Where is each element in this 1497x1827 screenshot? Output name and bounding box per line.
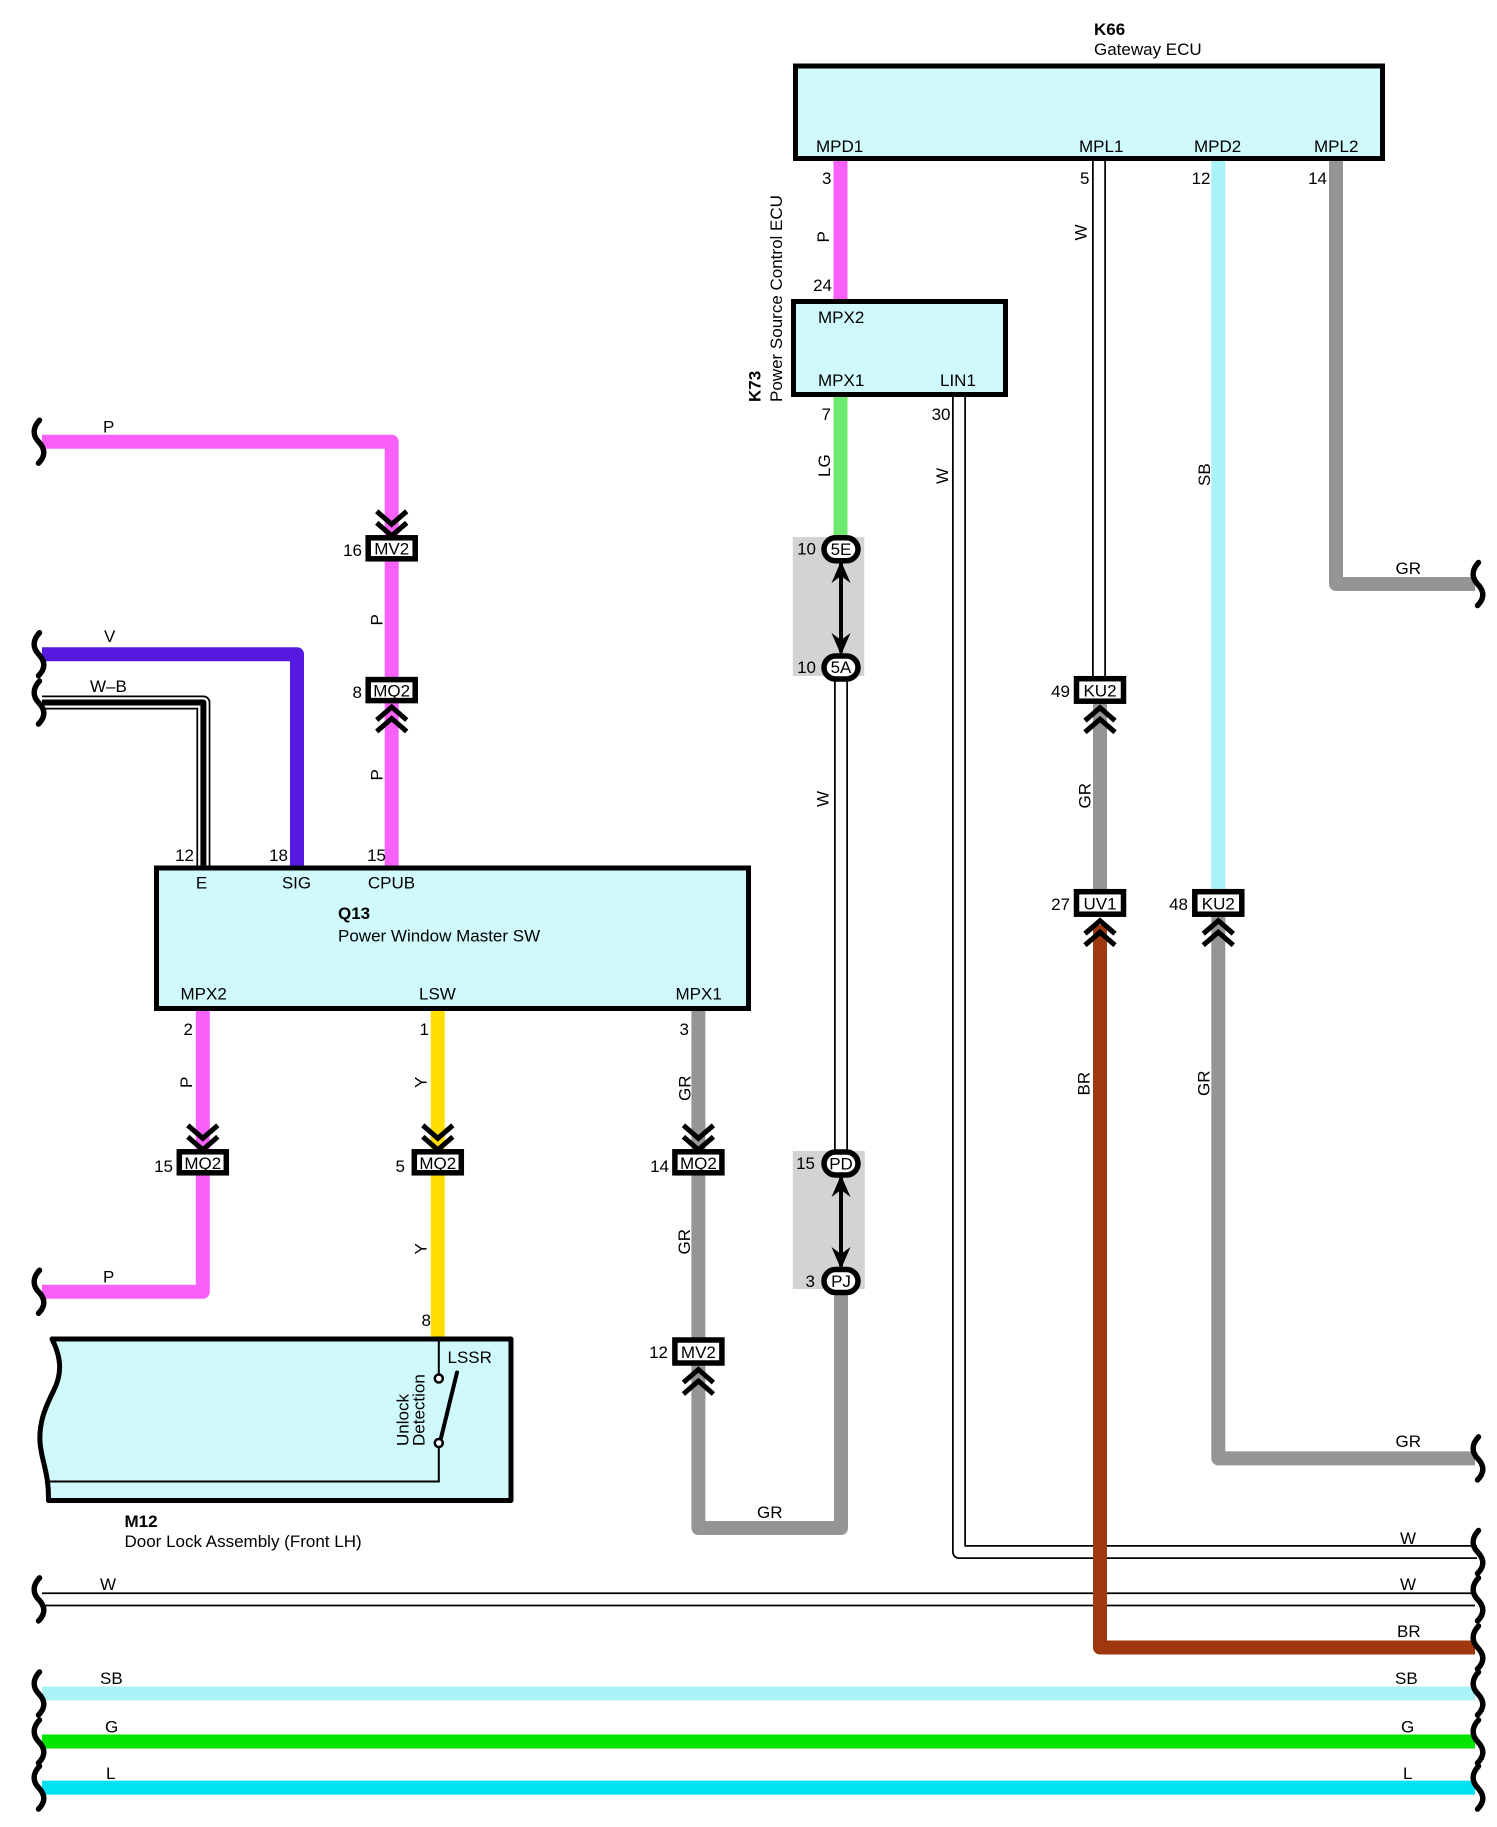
svg-text:GR: GR	[1195, 1071, 1214, 1097]
M12 switch lead from pin 8	[438, 1341, 440, 1374]
M12 switch terminal upper	[435, 1375, 443, 1383]
svg-text:2: 2	[184, 1020, 193, 1039]
switch assembly Q13 Power Window Master SW box	[157, 868, 749, 1009]
svg-text:3: 3	[806, 1272, 815, 1291]
svg-text:W: W	[1400, 1575, 1416, 1594]
connector MQ2 pin 15	[179, 1125, 226, 1173]
svg-text:MPL1: MPL1	[1079, 137, 1123, 156]
wire P from K66 MPD1 pin 3 to K73 MPX2 pin 24	[834, 155, 848, 305]
svg-text:Gateway ECU: Gateway ECU	[1094, 40, 1202, 59]
svg-text:MPD1: MPD1	[816, 137, 863, 156]
connector MQ2 pin 8	[368, 680, 415, 732]
wire break symbol L left	[34, 1766, 44, 1809]
svg-text:5E: 5E	[831, 540, 852, 559]
junction block J/B shading for 5E-5A	[793, 537, 865, 676]
wire break symbol W-B left	[34, 681, 44, 724]
svg-text:Y: Y	[412, 1077, 431, 1088]
svg-text:P: P	[814, 231, 833, 242]
svg-text:10: 10	[797, 540, 816, 559]
wire break symbol W right upper	[1473, 1531, 1483, 1574]
wire break symbol W left	[34, 1578, 44, 1621]
svg-text:15: 15	[367, 846, 386, 865]
svg-text:E: E	[196, 874, 207, 893]
connector MV2 pin 16	[368, 511, 415, 559]
svg-text:16: 16	[343, 541, 362, 560]
svg-text:1: 1	[420, 1020, 429, 1039]
svg-text:UV1: UV1	[1083, 895, 1116, 914]
connector MV2 pin 12	[675, 1340, 722, 1394]
svg-text:SIG: SIG	[282, 874, 311, 893]
svg-text:GR: GR	[1076, 783, 1095, 809]
svg-text:G: G	[105, 1718, 118, 1737]
wire W-B from left break to Q13 E pin 12	[42, 703, 203, 871]
svg-text:MPX1: MPX1	[676, 985, 722, 1004]
svg-text:12: 12	[175, 846, 194, 865]
svg-text:MPX1: MPX1	[818, 371, 864, 390]
svg-text:LIN1: LIN1	[940, 371, 976, 390]
svg-text:15: 15	[154, 1157, 173, 1176]
wire break symbol W right lower	[1473, 1578, 1483, 1621]
svg-text:W: W	[814, 791, 833, 807]
wire GR from MQ2 pin 14 to MV2 pin 12	[691, 1172, 705, 1341]
wire LG from K73 MPX1 pin 7 to junction 5E	[834, 393, 848, 540]
svg-text:8: 8	[422, 1311, 431, 1330]
svg-text:14: 14	[1308, 169, 1327, 188]
svg-text:GR: GR	[757, 1503, 783, 1522]
svg-text:12: 12	[649, 1343, 668, 1362]
svg-text:48: 48	[1169, 895, 1188, 914]
svg-text:5A: 5A	[831, 658, 852, 677]
svg-text:L: L	[1403, 1764, 1412, 1783]
svg-text:12: 12	[1192, 169, 1211, 188]
wire GR from KU2 pin 48 to right break	[1218, 913, 1475, 1458]
wire P from Q13 MPX2 pin 2 to MQ2 pin 15	[196, 1007, 210, 1153]
svg-text:MPX2: MPX2	[181, 985, 227, 1004]
svg-text:3: 3	[822, 169, 831, 188]
svg-text:PD: PD	[829, 1155, 853, 1174]
svg-text:MPL2: MPL2	[1314, 137, 1358, 156]
svg-text:KU2: KU2	[1083, 682, 1116, 701]
svg-text:GR: GR	[676, 1076, 695, 1102]
wire P from MQ2 pin 8 to Q13 CPUB pin 15	[385, 699, 399, 870]
svg-text:V: V	[104, 627, 116, 646]
svg-text:Detection: Detection	[410, 1374, 429, 1446]
connector UV1 pin 27	[1077, 892, 1124, 946]
connector KU2 pin 49	[1077, 679, 1124, 733]
M12 internal wire to left edge	[46, 1447, 439, 1482]
svg-text:W: W	[100, 1575, 116, 1594]
wire GR from K66 MPL2 pin 14 to right break	[1336, 155, 1475, 584]
svg-text:30: 30	[932, 405, 951, 424]
wire break symbol G left	[34, 1720, 44, 1763]
wire GR from KU2 pin 49 to UV1 pin 27	[1093, 700, 1107, 893]
wire W horizontal full width	[42, 1592, 1475, 1606]
svg-text:LSW: LSW	[419, 985, 456, 1004]
svg-text:GR: GR	[1396, 1432, 1422, 1451]
wire G horizontal band	[42, 1735, 1475, 1749]
svg-text:LG: LG	[815, 454, 834, 477]
junction internal link arrow PD-PJ	[832, 1175, 851, 1269]
svg-text:L: L	[106, 1764, 115, 1783]
wire break symbol SB right	[1473, 1672, 1483, 1715]
svg-text:MQ2: MQ2	[184, 1154, 221, 1173]
wire BR from UV1 pin 27 to right break	[1100, 925, 1475, 1648]
wire SB horizontal band	[42, 1687, 1475, 1701]
wire break symbol P left bottom	[34, 1270, 44, 1313]
junction connector PD pin 15	[824, 1152, 858, 1175]
svg-text:G: G	[1401, 1718, 1414, 1737]
svg-text:5: 5	[1080, 169, 1089, 188]
wire W from K73 LIN1 pin 30 to right break	[959, 391, 1477, 1552]
wire break symbol P left top	[34, 420, 44, 463]
svg-text:K73: K73	[746, 371, 765, 402]
svg-text:Q13: Q13	[338, 904, 370, 923]
svg-text:P: P	[368, 769, 387, 780]
svg-text:K66: K66	[1094, 20, 1125, 39]
wire break symbol SB left	[34, 1672, 44, 1715]
svg-text:7: 7	[822, 405, 831, 424]
wire break symbol GR right	[1473, 1437, 1483, 1480]
junction block shading for PD-PJ	[793, 1151, 865, 1289]
wire break symbol V left	[34, 633, 44, 676]
door lock M12 Door Lock Assembly box with torn left edge	[40, 1339, 511, 1501]
svg-text:PJ: PJ	[831, 1272, 851, 1291]
wire W from K66 MPL1 pin 5 to KU2 pin 49	[1092, 155, 1106, 680]
wire P from MQ2 pin 15 to left break	[42, 1172, 203, 1292]
svg-text:W: W	[933, 468, 952, 484]
svg-text:BR: BR	[1075, 1072, 1094, 1096]
M12 unlock detection switch blade	[441, 1373, 457, 1439]
svg-text:W: W	[1400, 1529, 1416, 1548]
ECU K66 Gateway ECU box	[796, 66, 1383, 159]
svg-text:P: P	[177, 1077, 196, 1088]
svg-text:SB: SB	[1395, 1669, 1418, 1688]
svg-text:24: 24	[813, 276, 832, 295]
svg-text:49: 49	[1051, 682, 1070, 701]
svg-text:MQ2: MQ2	[419, 1154, 456, 1173]
svg-text:CPUB: CPUB	[368, 874, 415, 893]
junction connector 5A pin 10	[824, 656, 858, 679]
svg-text:MPX2: MPX2	[818, 308, 864, 327]
svg-text:8: 8	[353, 683, 362, 702]
junction connector 5E pin 10	[824, 538, 858, 561]
svg-text:W–B: W–B	[90, 677, 127, 696]
wire break symbol BR right	[1473, 1626, 1483, 1669]
svg-text:SB: SB	[100, 1669, 123, 1688]
svg-text:M12: M12	[125, 1512, 158, 1531]
svg-text:LSSR: LSSR	[448, 1348, 492, 1367]
svg-text:Power Window Master SW: Power Window Master SW	[338, 927, 540, 946]
svg-text:14: 14	[650, 1157, 669, 1176]
svg-text:P: P	[368, 614, 387, 625]
wire GR from Q13 MPX1 pin 3 to MQ2 pin 14	[691, 1007, 705, 1153]
svg-text:MV2: MV2	[374, 540, 409, 559]
svg-text:MQ2: MQ2	[373, 681, 410, 700]
svg-text:5: 5	[396, 1157, 405, 1176]
wire V from left break to Q13 SIG pin 18	[42, 654, 297, 870]
svg-text:P: P	[103, 1268, 114, 1287]
svg-text:Y: Y	[412, 1243, 431, 1254]
wire W from junction 5A to junction PD	[834, 673, 848, 1158]
svg-text:GR: GR	[1396, 559, 1422, 578]
M12 switch terminal lower	[435, 1439, 443, 1447]
svg-text:SB: SB	[1195, 463, 1214, 486]
connector MQ2 pin 5	[414, 1125, 461, 1173]
ECU K73 Power Source Control ECU box	[794, 302, 1006, 395]
connector MQ2 pin 14	[675, 1125, 722, 1173]
svg-text:Power Source Control ECU: Power Source Control ECU	[767, 195, 786, 402]
svg-text:MQ2: MQ2	[680, 1154, 717, 1173]
svg-text:15: 15	[796, 1154, 815, 1173]
svg-text:BR: BR	[1397, 1622, 1421, 1641]
wire L horizontal band	[42, 1781, 1475, 1795]
svg-text:KU2: KU2	[1202, 895, 1235, 914]
svg-text:3: 3	[680, 1020, 689, 1039]
svg-text:P: P	[103, 418, 114, 437]
wire Y from Q13 LSW pin 1 to MQ2 pin 5	[431, 1007, 445, 1153]
wire break symbol G right	[1473, 1720, 1483, 1763]
wire GR from MV2 pin 12 to junction PJ	[698, 1293, 841, 1528]
svg-text:10: 10	[797, 658, 816, 677]
svg-text:W: W	[1072, 224, 1091, 240]
wire break symbol L right	[1473, 1766, 1483, 1809]
svg-text:MV2: MV2	[681, 1343, 716, 1362]
svg-text:MPD2: MPD2	[1194, 137, 1241, 156]
svg-text:27: 27	[1051, 895, 1070, 914]
wire break symbol GR right top	[1473, 563, 1483, 606]
svg-text:GR: GR	[675, 1229, 694, 1255]
wire P from left break to connector MV2 pin 16	[42, 442, 392, 540]
wire Y from MQ2 pin 5 to M12 LSSR pin 8	[431, 1172, 445, 1344]
connector KU2 pin 48	[1195, 892, 1242, 946]
svg-text:Door Lock Assembly (Front LH): Door Lock Assembly (Front LH)	[125, 1532, 362, 1551]
junction connector PJ pin 3	[824, 1270, 858, 1293]
wire SB from K66 MPD2 pin 12 to connector KU2 pin 48	[1211, 155, 1225, 895]
wire P from MV2 pin 16 to MQ2 pin 8	[385, 557, 399, 681]
svg-text:18: 18	[269, 846, 288, 865]
junction internal link arrow 5E-5A	[832, 561, 851, 655]
